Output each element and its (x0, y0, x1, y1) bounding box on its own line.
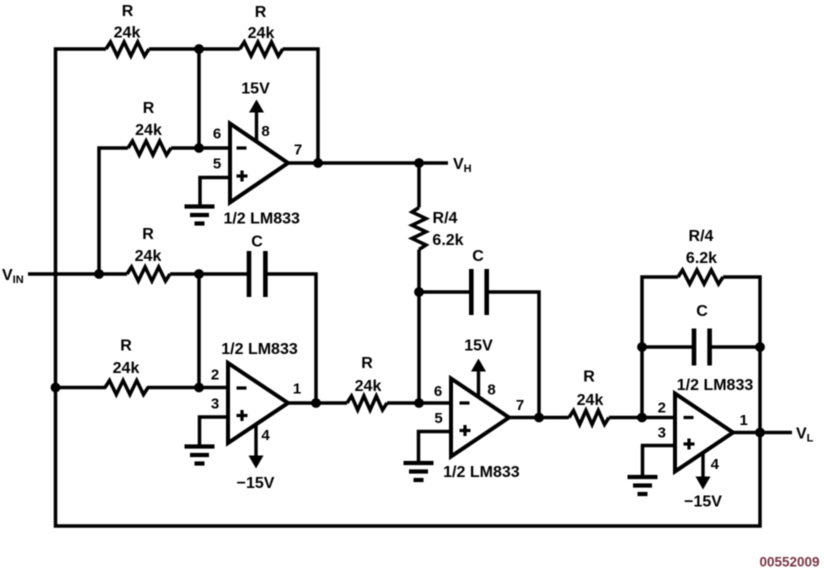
svg-text:24k: 24k (135, 248, 162, 265)
svg-text:R/4: R/4 (689, 228, 714, 245)
svg-text:3: 3 (658, 424, 666, 441)
svg-text:24k: 24k (113, 360, 140, 377)
svg-text:−15V: −15V (237, 475, 275, 492)
svg-text:1/2 LM833: 1/2 LM833 (443, 464, 520, 481)
svg-text:1/2 LM833: 1/2 LM833 (677, 377, 754, 394)
svg-text:7: 7 (516, 397, 524, 414)
svg-text:00552009: 00552009 (759, 555, 819, 570)
svg-text:2: 2 (658, 399, 666, 416)
svg-text:R/4: R/4 (433, 210, 458, 227)
svg-text:R: R (255, 4, 267, 21)
svg-text:1: 1 (740, 412, 748, 429)
svg-text:8: 8 (487, 382, 495, 399)
svg-text:24k: 24k (577, 392, 604, 409)
svg-text:R: R (143, 100, 155, 117)
svg-text:5: 5 (213, 156, 221, 173)
svg-text:R: R (361, 355, 373, 372)
svg-text:24k: 24k (355, 378, 382, 395)
svg-text:C: C (696, 303, 708, 320)
svg-text:3: 3 (211, 396, 219, 413)
svg-text:24k: 24k (248, 25, 275, 42)
svg-text:24k: 24k (114, 25, 141, 42)
svg-text:15V: 15V (241, 81, 270, 98)
svg-text:C: C (472, 248, 484, 265)
svg-text:C: C (251, 234, 263, 251)
svg-text:4: 4 (711, 456, 720, 473)
svg-text:24k: 24k (135, 122, 162, 139)
svg-text:6.2k: 6.2k (686, 250, 717, 267)
svg-text:6: 6 (213, 126, 221, 143)
svg-text:R: R (120, 338, 132, 355)
svg-text:6.2k: 6.2k (432, 232, 463, 249)
svg-text:1/2 LM833: 1/2 LM833 (221, 341, 298, 358)
svg-text:6: 6 (434, 383, 442, 400)
svg-text:15V: 15V (464, 338, 493, 355)
svg-text:R: R (583, 369, 595, 386)
svg-text:R: R (142, 226, 154, 243)
svg-text:1: 1 (293, 381, 301, 398)
svg-text:1/2 LM833: 1/2 LM833 (223, 211, 300, 228)
svg-text:4: 4 (261, 427, 270, 444)
svg-text:5: 5 (434, 410, 442, 427)
svg-text:8: 8 (261, 123, 269, 140)
svg-text:R: R (122, 3, 134, 20)
svg-text:7: 7 (294, 142, 302, 159)
svg-text:2: 2 (211, 367, 219, 384)
svg-text:−15V: −15V (684, 494, 722, 511)
